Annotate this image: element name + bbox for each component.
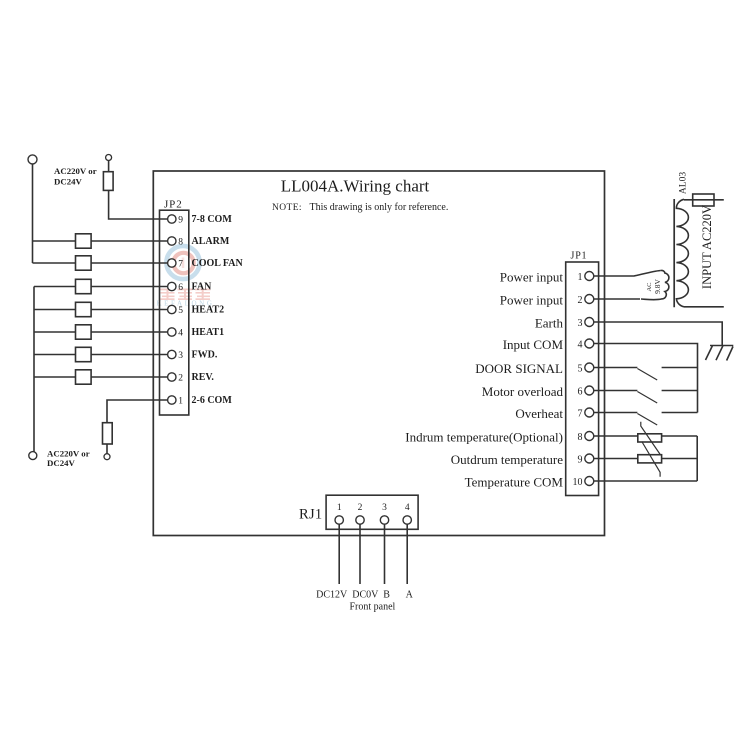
svg-text:Input COM: Input COM: [503, 337, 564, 352]
svg-text:RJ1: RJ1: [299, 507, 322, 523]
svg-text:Power input: Power input: [500, 292, 564, 307]
RJ1 pin 3 circle: [380, 516, 388, 524]
thermistor RT2 diagonal: [642, 442, 660, 477]
svg-text:Power input: Power input: [500, 269, 564, 284]
svg-text:4: 4: [578, 340, 583, 351]
svg-text:7-8 COM: 7-8 COM: [192, 214, 233, 225]
ground symbol: [706, 346, 734, 361]
JP1 pin 2 circle: [585, 295, 594, 304]
svg-text:JP2: JP2: [164, 199, 183, 211]
svg-text:ALARM: ALARM: [192, 236, 230, 247]
RJ1 pin 4 circle: [403, 516, 411, 524]
wire fuse F1 to JP2 pin 9: [109, 190, 168, 219]
switch contact DOOR SIGNAL: [662, 367, 698, 369]
svg-text:1: 1: [578, 272, 583, 283]
RJ1 pin 2 circle: [356, 516, 364, 524]
svg-text:B: B: [383, 589, 390, 600]
svg-text:9: 9: [578, 455, 583, 466]
svg-text:5: 5: [178, 306, 183, 316]
relay contact box K3: [76, 279, 92, 293]
svg-text:6: 6: [578, 387, 583, 398]
svg-text:DC0V: DC0V: [352, 589, 379, 600]
relay contact box K5: [76, 325, 92, 339]
transformer T1 core: [673, 199, 675, 307]
relay contact box K4: [76, 302, 92, 316]
wire REV row: [34, 376, 168, 378]
wire JP1 pin4 Input COM to switch bus: [594, 344, 698, 413]
wire top terminal to fuse F1: [108, 161, 110, 172]
fuse F3 body: [693, 194, 714, 206]
switch blade Motor overload: [637, 392, 657, 404]
switch contact Overheat: [662, 412, 698, 414]
RJ1 pin 1 wire down: [338, 524, 340, 584]
RJ1 pin 3 wire down: [384, 524, 386, 584]
svg-text:HEAT1: HEAT1: [192, 327, 225, 338]
terminal circle top fused: [106, 155, 112, 161]
watermark chinese characters: [160, 289, 211, 301]
JP1 pin 7 circle: [585, 408, 594, 417]
svg-text:JP1: JP1: [571, 251, 588, 262]
RJ1 pin 4 wire down: [406, 524, 408, 584]
JP2 pin 1 circle: [168, 396, 176, 404]
svg-text:LL004A.Wiring chart: LL004A.Wiring chart: [281, 177, 430, 196]
terminal circle bottom-left: [29, 452, 37, 460]
svg-text:AC220V or: AC220V or: [47, 449, 90, 459]
JP2 pin 6 circle: [168, 282, 176, 290]
svg-text:INPUT AC220V: INPUT AC220V: [700, 205, 714, 289]
wire JP1 pin2 to transformer secondary: [594, 298, 640, 300]
svg-text:1: 1: [178, 396, 183, 406]
svg-text:1: 1: [337, 503, 342, 513]
wire FWD row: [34, 354, 168, 356]
svg-text:DC24V: DC24V: [47, 458, 76, 468]
svg-text:5: 5: [578, 364, 583, 375]
svg-text:8: 8: [178, 237, 183, 247]
main board outline: [153, 171, 604, 536]
RJ1 pin 2 wire down: [359, 524, 361, 584]
svg-text:3: 3: [382, 503, 387, 513]
svg-text:Outdrum temperature: Outdrum temperature: [451, 452, 563, 467]
switch blade Overheat: [637, 414, 657, 426]
svg-text:COOL FAN: COOL FAN: [192, 258, 244, 269]
watermark logo center mark: [182, 258, 185, 269]
svg-text:FAN: FAN: [192, 282, 213, 293]
connector RJ1 body: [326, 495, 418, 529]
wire left bus A: [32, 164, 34, 263]
thermistor bus vertical: [696, 436, 698, 481]
svg-text:AC220V or: AC220V or: [54, 166, 97, 176]
JP1 pin 6 circle: [585, 386, 594, 395]
JP1 pin 8 circle: [585, 432, 594, 441]
svg-text:7: 7: [578, 409, 583, 420]
wire HEAT2 row: [34, 309, 168, 311]
svg-text:2: 2: [178, 373, 183, 383]
svg-text:This drawing is only for refer: This drawing is only for reference.: [310, 202, 449, 213]
wire thermistor RT1 to bus: [662, 435, 698, 437]
svg-text:FWD.: FWD.: [192, 350, 218, 361]
wire left bus B: [33, 287, 35, 452]
svg-text:AL03: AL03: [678, 172, 688, 194]
svg-text:Front panel: Front panel: [349, 601, 395, 612]
switch blade DOOR SIGNAL: [637, 369, 657, 381]
svg-text:DOOR SIGNAL: DOOR SIGNAL: [475, 361, 563, 376]
svg-text:3: 3: [578, 318, 583, 329]
thermistor RT1 body: [638, 434, 662, 442]
watermark logo ring inner: [173, 253, 193, 273]
wire fuse F2 to bottom terminal: [106, 444, 108, 454]
wire thermistor RT2 to bus: [662, 458, 698, 460]
svg-text:6: 6: [178, 283, 183, 293]
thermistor RT2 body: [638, 455, 662, 463]
svg-text:REV.: REV.: [192, 372, 215, 383]
JP2 pin 2 circle: [168, 373, 176, 381]
JP1 pin 5 circle: [585, 363, 594, 372]
svg-text:DC12V: DC12V: [316, 589, 348, 600]
svg-text:2: 2: [358, 503, 363, 513]
wire ALARM row: [33, 240, 168, 242]
JP1 pin 3 circle: [585, 318, 594, 327]
svg-text:DC24V: DC24V: [54, 176, 83, 186]
wire COOL FAN row: [33, 262, 168, 264]
svg-text:4: 4: [178, 328, 183, 338]
watermark logo ring outer: [166, 246, 199, 279]
wire JP1 pin3 Earth to ground: [594, 322, 722, 345]
switch contact Motor overload: [662, 390, 698, 392]
relay contact box K2: [76, 256, 92, 270]
svg-text:3: 3: [178, 351, 183, 361]
JP2 pin 4 circle: [168, 328, 176, 336]
JP2 pin 5 circle: [168, 305, 176, 313]
connector JP1 body: [566, 262, 599, 496]
wire JP1 pin5 to switch DOOR SIGNAL: [594, 367, 638, 369]
svg-text:9: 9: [178, 215, 183, 225]
relay contact box K7: [76, 370, 92, 384]
svg-text:4: 4: [405, 503, 410, 513]
wire JP1 pin8 to thermistor RT1: [594, 435, 638, 437]
JP1 pin 1 circle: [585, 272, 594, 281]
svg-text:NOTE:: NOTE:: [272, 203, 302, 213]
svg-text:7: 7: [178, 259, 183, 269]
JP2 pin 3 circle: [168, 350, 176, 358]
wire JP1 pin9 to thermistor RT2: [594, 458, 638, 460]
svg-text:2: 2: [578, 295, 583, 306]
svg-text:Earth: Earth: [535, 315, 564, 330]
JP1 pin 10 circle: [585, 477, 594, 486]
JP2 pin 9 circle: [168, 215, 176, 223]
wire primary bottom lead: [684, 306, 724, 308]
svg-text:9.8V: 9.8V: [653, 279, 662, 294]
svg-text:Motor overload: Motor overload: [482, 384, 564, 399]
relay contact box K1: [76, 234, 92, 248]
wire through fuse F3: [684, 199, 724, 201]
RJ1 pin 1 circle: [335, 516, 343, 524]
fuse F1 body: [103, 172, 113, 191]
relay contact box K6: [76, 347, 92, 361]
thermistor RT1 diagonal: [641, 422, 661, 456]
connector JP2 body: [160, 210, 189, 415]
wire FAN row: [34, 286, 168, 288]
svg-text:HEAT2: HEAT2: [192, 305, 225, 316]
fuse F2 body: [103, 423, 113, 444]
JP1 pin 4 circle: [585, 339, 594, 348]
svg-text:Indrum temperature(Optional): Indrum temperature(Optional): [405, 429, 563, 444]
terminal circle bottom fused: [104, 454, 110, 460]
svg-text:Overheat: Overheat: [515, 406, 563, 421]
wire JP1 pin1 to transformer secondary: [594, 271, 661, 277]
terminal circle top-left: [28, 155, 37, 164]
wire JP2 pin 1 to fuse F2: [107, 400, 168, 423]
JP2 pin 8 circle: [168, 237, 176, 245]
svg-text:Temperature COM: Temperature COM: [465, 474, 564, 489]
JP1 pin 9 circle: [585, 454, 594, 463]
transformer T1 primary winding: [676, 199, 688, 306]
svg-text:10: 10: [573, 477, 583, 488]
svg-text:AC: AC: [646, 282, 653, 291]
svg-text:A: A: [406, 589, 414, 600]
svg-text:8: 8: [578, 432, 583, 443]
JP2 pin 7 circle: [168, 259, 176, 267]
svg-text:2-6 COM: 2-6 COM: [192, 395, 233, 406]
wire JP1 pin6 to switch Motor overload: [594, 390, 638, 392]
wire JP1 pin7 to switch Overheat: [594, 412, 638, 414]
wire JP1 pin10 Temperature COM: [594, 480, 697, 482]
wire HEAT1 row: [34, 331, 168, 333]
transformer T1 secondary winding: [641, 270, 669, 299]
